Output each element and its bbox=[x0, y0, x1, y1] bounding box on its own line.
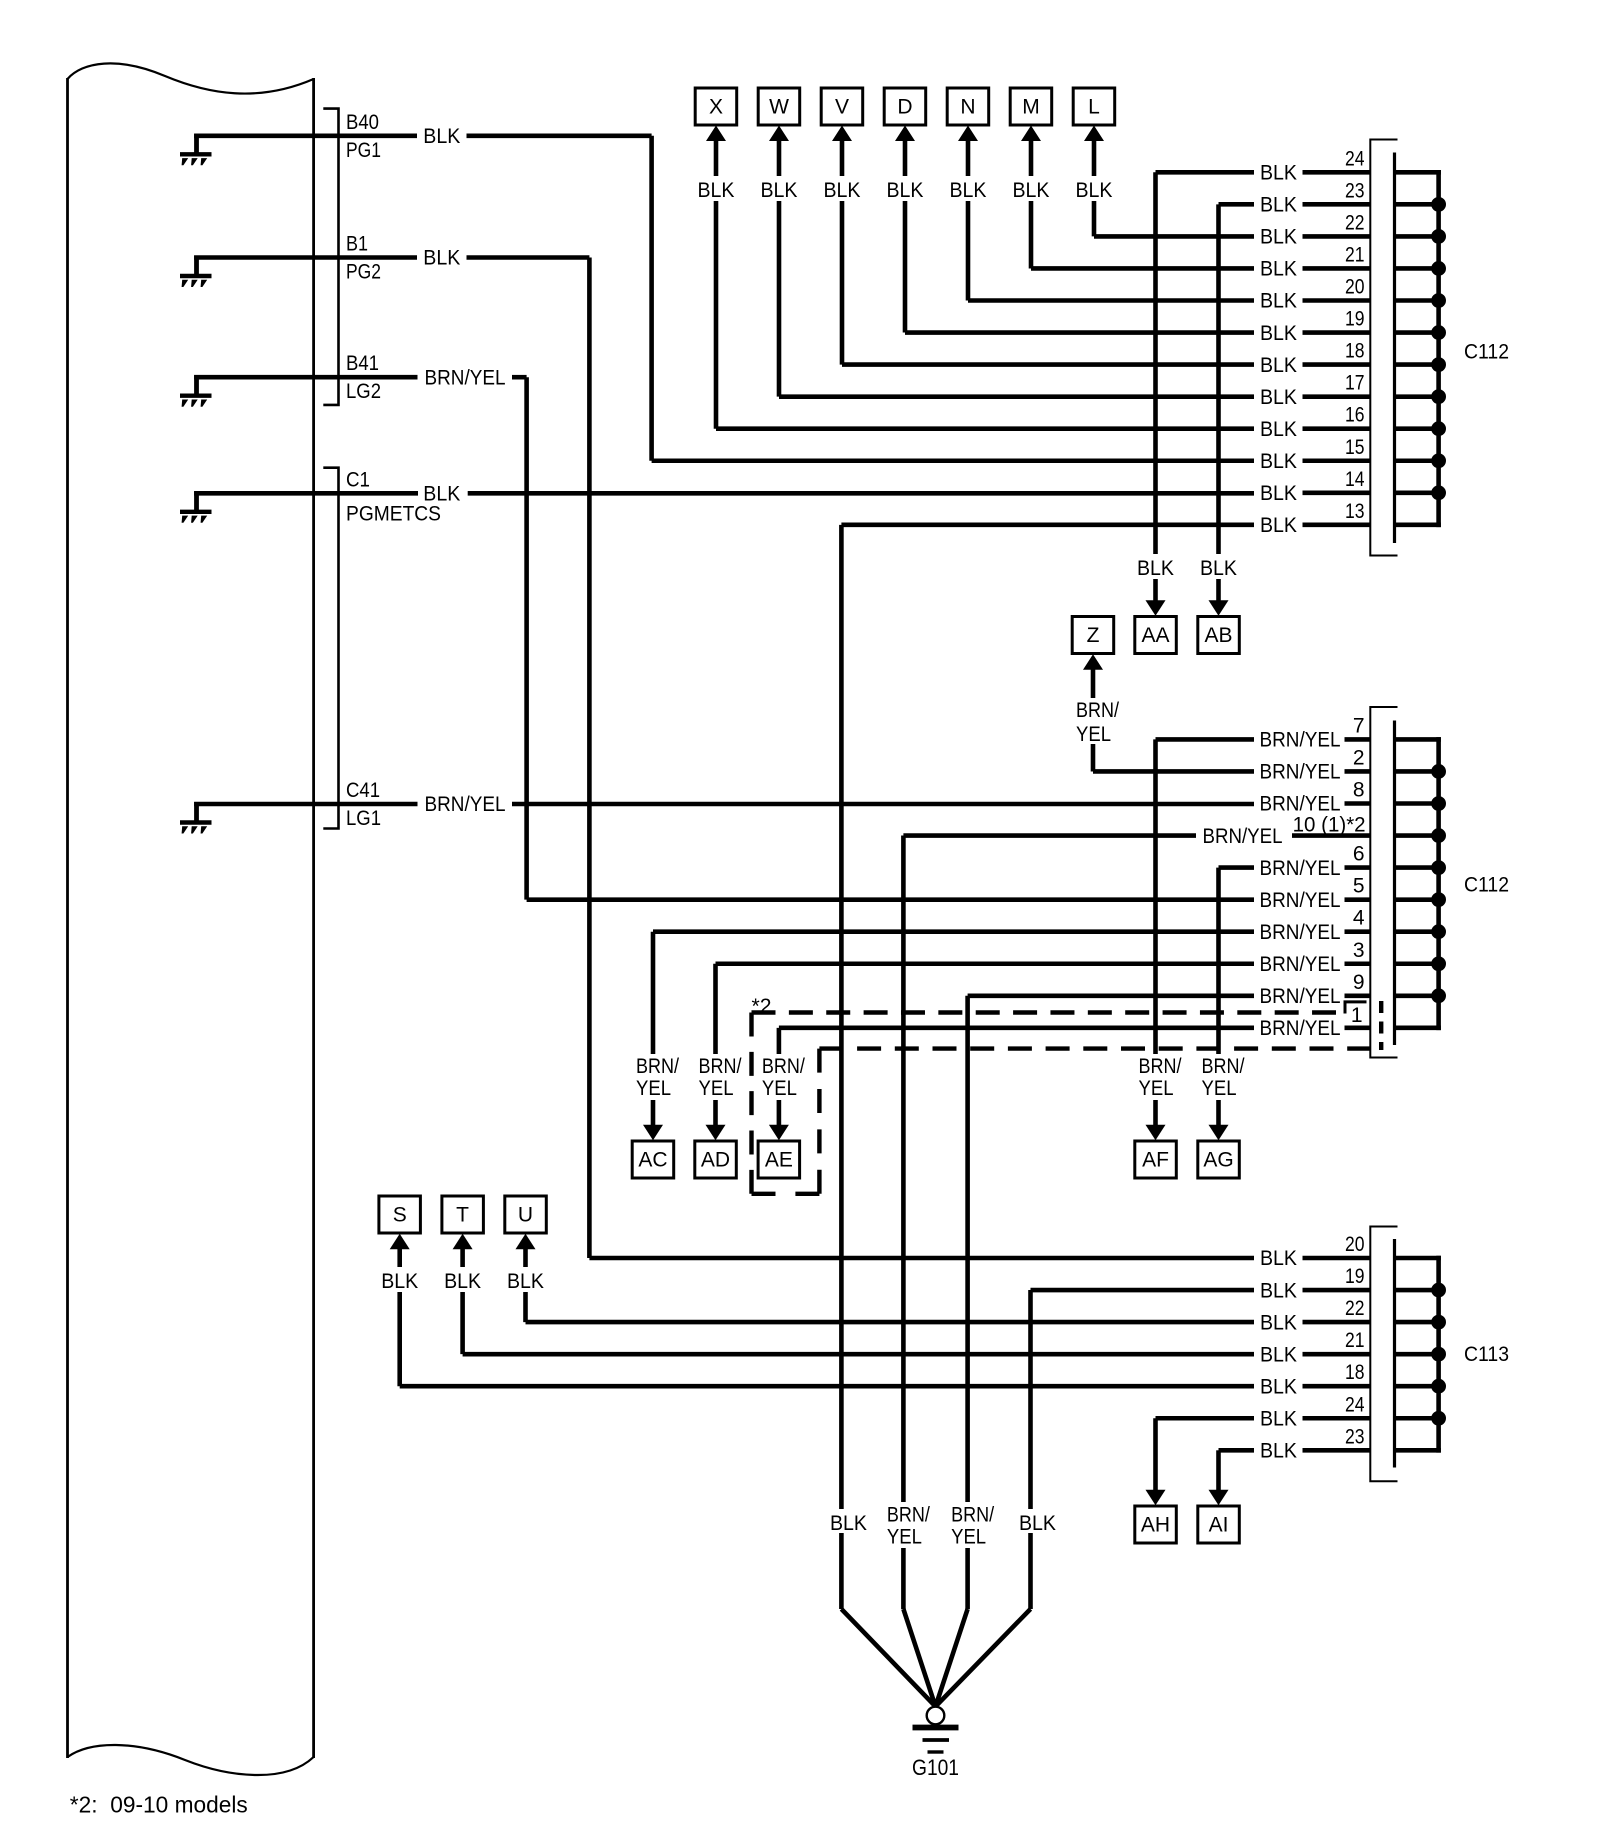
svg-text:14: 14 bbox=[1345, 468, 1365, 491]
destination box W bbox=[758, 88, 800, 125]
svg-text:BLK: BLK bbox=[1260, 354, 1297, 377]
svg-text:BRN/YEL: BRN/YEL bbox=[1260, 761, 1341, 784]
BLK label under box D bbox=[881, 176, 929, 202]
C112 pin number 15 bbox=[1345, 436, 1365, 459]
svg-text:13: 13 bbox=[1345, 500, 1365, 523]
svg-text:17: 17 bbox=[1345, 372, 1365, 395]
wire box X BLK to C112 pin 16 bbox=[716, 139, 1441, 429]
C113 pin number 22 bbox=[1345, 1297, 1365, 1320]
svg-text:BLK: BLK bbox=[1076, 179, 1113, 202]
svg-text:2: 2 bbox=[1353, 746, 1365, 769]
svg-text:Z: Z bbox=[1087, 624, 1100, 647]
arrow into box AE bbox=[769, 1125, 789, 1141]
svg-text:24: 24 bbox=[1345, 147, 1365, 170]
svg-text:X: X bbox=[709, 96, 723, 119]
arrow into box W bbox=[769, 126, 789, 142]
svg-text:AG: AG bbox=[1203, 1149, 1233, 1172]
dashed *2 option box around AE (bottom) bbox=[752, 1192, 820, 1196]
wire C112 pin 1 BRN/YEL to box AE bbox=[779, 1028, 1441, 1127]
svg-text:G101: G101 bbox=[912, 1755, 959, 1780]
BLK label under box M bbox=[1007, 176, 1055, 202]
svg-text:AE: AE bbox=[765, 1149, 793, 1172]
svg-text:BLK: BLK bbox=[1260, 226, 1297, 249]
arrow into box T bbox=[453, 1234, 473, 1250]
BLK value label at C112 pin 22 bbox=[1257, 225, 1301, 249]
svg-text:BLK: BLK bbox=[1260, 322, 1297, 345]
connector C112 (upper) label bbox=[1464, 341, 1509, 364]
svg-text:B1: B1 bbox=[346, 233, 368, 256]
C113 pin number 19 bbox=[1345, 1265, 1365, 1288]
BLK label under box W bbox=[755, 176, 803, 202]
BLK value label at C113 pin 23 bbox=[1257, 1439, 1301, 1463]
svg-text:YEL: YEL bbox=[636, 1077, 671, 1100]
svg-text:BRN/: BRN/ bbox=[699, 1055, 742, 1078]
dashed *2 option box around AE (left side) bbox=[749, 1013, 753, 1194]
svg-text:AH: AH bbox=[1141, 1514, 1170, 1537]
svg-text:AD: AD bbox=[701, 1149, 730, 1172]
svg-text:BRN/: BRN/ bbox=[1076, 699, 1119, 722]
arrow into box X bbox=[706, 126, 726, 142]
svg-text:T: T bbox=[456, 1204, 469, 1227]
C113 pin number 20 bbox=[1345, 1233, 1365, 1256]
arrow into box AG bbox=[1209, 1125, 1229, 1141]
C113 pin number 21 bbox=[1345, 1329, 1365, 1352]
BLK value label at C112 pin 16 bbox=[1257, 417, 1301, 441]
C112 pin number 17 bbox=[1345, 372, 1365, 395]
C112 pin number 21 bbox=[1345, 243, 1365, 266]
wire box N BLK to C112 pin 20 bbox=[968, 139, 1441, 300]
svg-text:AF: AF bbox=[1142, 1149, 1169, 1172]
svg-text:W: W bbox=[769, 96, 789, 119]
destination box AA bbox=[1135, 617, 1177, 654]
svg-text:BRN/: BRN/ bbox=[887, 1504, 930, 1527]
BLK value label at C113 pin 21 bbox=[1257, 1343, 1301, 1367]
BLK value label at C112 pin 15 bbox=[1257, 449, 1301, 473]
C112 pin number 3 bbox=[1353, 939, 1365, 962]
C113 pin number 24 bbox=[1345, 1393, 1365, 1416]
arrow into box AA bbox=[1146, 600, 1166, 616]
arrow into box Z bbox=[1083, 654, 1103, 670]
wire C112 pin 7 BRN/YEL to box AF bbox=[1156, 739, 1441, 1126]
svg-text:BLK: BLK bbox=[1260, 162, 1297, 185]
svg-text:10 (1)*2: 10 (1)*2 bbox=[1293, 814, 1366, 837]
BLK value label on B40 wire bbox=[420, 124, 464, 148]
destination box AD bbox=[695, 1141, 737, 1178]
svg-text:C112: C112 bbox=[1464, 341, 1509, 364]
destination box M bbox=[1010, 88, 1051, 125]
BLK value label on B1 wire bbox=[420, 246, 464, 270]
connector C112 (upper) body bbox=[1370, 140, 1397, 556]
wire box D BLK to C112 pin 19 bbox=[905, 139, 1441, 332]
C112 pin number 10 (1)*2 bbox=[1293, 814, 1366, 837]
C112 pin number 16 bbox=[1345, 404, 1365, 427]
svg-text:20: 20 bbox=[1345, 1233, 1365, 1256]
BRN/YEL value label at C112 pin 1 bbox=[1256, 1016, 1345, 1040]
svg-text:19: 19 bbox=[1345, 1265, 1365, 1288]
svg-text:BLK: BLK bbox=[1260, 418, 1297, 441]
svg-text:BLK: BLK bbox=[1260, 450, 1297, 473]
svg-text:19: 19 bbox=[1345, 308, 1365, 331]
C112 pin number 19 bbox=[1345, 308, 1365, 331]
arrow into box AB bbox=[1209, 600, 1229, 616]
wire C113 pin 24 BLK to box AH bbox=[1156, 1418, 1441, 1492]
BRN/YEL value label at C112 pin 10 bbox=[1198, 824, 1291, 848]
destination box T bbox=[442, 1196, 484, 1233]
wire C112 pin 2 BRN/YEL to box Z bbox=[1093, 668, 1441, 772]
svg-text:BRN/YEL: BRN/YEL bbox=[1260, 729, 1341, 752]
dashed *2 option boundary (upper horizontal) bbox=[752, 1010, 1337, 1014]
svg-text:21: 21 bbox=[1345, 243, 1365, 266]
svg-text:21: 21 bbox=[1345, 1329, 1365, 1352]
svg-text:YEL: YEL bbox=[887, 1526, 922, 1549]
svg-text:BRN/YEL: BRN/YEL bbox=[1260, 857, 1341, 880]
svg-text:BLK: BLK bbox=[1260, 1311, 1297, 1334]
svg-text:BLK: BLK bbox=[1260, 482, 1297, 505]
wire B1/PG2 BLK to C113 pin 20 bbox=[194, 258, 1441, 1259]
svg-text:*2: *2 bbox=[752, 995, 772, 1018]
C113 pin number 18 bbox=[1345, 1361, 1365, 1384]
arrow into box L bbox=[1084, 126, 1104, 142]
svg-text:BLK: BLK bbox=[1260, 1279, 1297, 1302]
BLK label under box V bbox=[818, 176, 866, 202]
svg-text:BLK: BLK bbox=[1260, 1247, 1297, 1270]
BLK value label at C113 pin 19 bbox=[1257, 1279, 1301, 1303]
svg-text:BLK: BLK bbox=[423, 125, 460, 148]
BLK value label at C113 pin 24 bbox=[1257, 1407, 1301, 1431]
wire C112 pin 3 BRN/YEL to box AD bbox=[716, 964, 1441, 1127]
svg-text:1: 1 bbox=[1351, 1004, 1363, 1027]
BRN/YEL value label at C112 pin 5 bbox=[1256, 888, 1345, 912]
svg-text:BLK: BLK bbox=[1260, 1407, 1297, 1430]
C112 pin number 2 bbox=[1353, 746, 1365, 769]
svg-text:BLK: BLK bbox=[1200, 557, 1237, 580]
dashed boundary segment at C112 pin 1 bbox=[1379, 1001, 1383, 1050]
ground G101 name label bbox=[912, 1755, 959, 1780]
svg-text:BRN/YEL: BRN/YEL bbox=[1260, 953, 1341, 976]
svg-text:5: 5 bbox=[1353, 875, 1365, 898]
BRN/YEL value label at C112 pin 6 bbox=[1256, 856, 1345, 880]
ground symbol at B41 bbox=[180, 375, 212, 407]
svg-text:18: 18 bbox=[1345, 340, 1365, 363]
arrow into box U bbox=[516, 1234, 536, 1250]
svg-text:BRN/YEL: BRN/YEL bbox=[1260, 793, 1341, 816]
C112 pin number 14 bbox=[1345, 468, 1365, 491]
BLK value label on C1 wire bbox=[420, 482, 464, 506]
BRN/YEL value label on B41 wire bbox=[421, 366, 510, 390]
svg-text:C1: C1 bbox=[346, 468, 370, 491]
svg-text:16: 16 bbox=[1345, 404, 1365, 427]
arrow into box S bbox=[390, 1234, 410, 1250]
wire C41/LG1 BRN/YEL to C112 pin 8 bbox=[194, 801, 1441, 806]
arrow into box V bbox=[832, 126, 852, 142]
destination box AI bbox=[1198, 1506, 1240, 1543]
BLK value label at C112 pin 17 bbox=[1257, 385, 1301, 409]
svg-text:BLK: BLK bbox=[1260, 1440, 1297, 1463]
svg-text:BLK: BLK bbox=[444, 1270, 481, 1293]
svg-text:LG2: LG2 bbox=[346, 380, 381, 403]
BRN/YEL label on G101 drop 2 bbox=[885, 1502, 937, 1549]
C112 pin number 1 (alt, dashed area) bbox=[1351, 1004, 1363, 1027]
BLK label under box X bbox=[692, 176, 740, 202]
BRN/YEL value label at C112 pin 3 bbox=[1256, 952, 1345, 976]
svg-text:20: 20 bbox=[1345, 276, 1365, 299]
svg-text:YEL: YEL bbox=[1139, 1077, 1174, 1100]
destination box AE bbox=[758, 1141, 800, 1178]
BLK value label at C112 pin 13 bbox=[1257, 513, 1301, 537]
ground symbol at C41 bbox=[180, 802, 212, 834]
svg-text:6: 6 bbox=[1353, 843, 1365, 866]
svg-text:N: N bbox=[960, 96, 975, 119]
BLK label under box L bbox=[1070, 176, 1118, 202]
BRN/YEL label above box AF bbox=[1137, 1054, 1189, 1100]
BRN/YEL value label at C112 pin 7 bbox=[1256, 728, 1345, 752]
svg-text:BLK: BLK bbox=[1019, 1512, 1056, 1535]
svg-text:23: 23 bbox=[1345, 1425, 1365, 1448]
BLK value label at C112 pin 19 bbox=[1257, 321, 1301, 345]
C112 pin number 13 bbox=[1345, 500, 1365, 523]
svg-text:B41: B41 bbox=[346, 352, 379, 375]
BLK value label at C112 pin 21 bbox=[1257, 257, 1301, 281]
wire C113 pin 23 BLK to box AI bbox=[1219, 1450, 1441, 1492]
pin C1 name label bbox=[346, 468, 441, 525]
BRN/YEL value label at C112 pin 8 bbox=[1256, 792, 1345, 816]
BLK value label at C113 pin 20 bbox=[1257, 1247, 1301, 1271]
svg-text:7: 7 bbox=[1353, 714, 1365, 737]
C112 pin number 8 bbox=[1353, 779, 1365, 802]
svg-text:BLK: BLK bbox=[423, 483, 460, 506]
arrow into box D bbox=[895, 126, 915, 142]
BRN/YEL label on G101 drop 3 bbox=[950, 1502, 1002, 1549]
wire C112 pin 13 BLK to ground G101 bbox=[841, 525, 1441, 1609]
svg-text:BLK: BLK bbox=[1260, 290, 1297, 313]
svg-text:C41: C41 bbox=[346, 779, 380, 802]
ECM/PCM component body (torn edges) bbox=[68, 63, 314, 1775]
BRN/YEL label above box AD bbox=[697, 1054, 749, 1100]
bracket mark at alt pin 1 bbox=[1345, 1002, 1367, 1014]
arrow into box AH bbox=[1146, 1490, 1166, 1506]
BRN/YEL value label on C41 wire bbox=[421, 793, 510, 817]
C113 pin number 23 bbox=[1345, 1425, 1365, 1448]
C112 pin number 22 bbox=[1345, 211, 1365, 234]
dashed *2 option boundary (lower horizontal) bbox=[819, 1046, 1371, 1050]
wire C112 pin 10 BRN/YEL to ground G101 bbox=[903, 836, 1441, 1609]
upper C112 ground bus collector wire bbox=[1431, 170, 1446, 527]
svg-text:BLK: BLK bbox=[1260, 194, 1297, 217]
svg-text:AB: AB bbox=[1204, 624, 1232, 647]
C112 pin number 6 bbox=[1353, 843, 1365, 866]
svg-text:BRN/YEL: BRN/YEL bbox=[1260, 921, 1341, 944]
wire box W BLK to C112 pin 17 bbox=[779, 139, 1441, 396]
svg-text:BRN/: BRN/ bbox=[762, 1055, 805, 1078]
arrow into box AI bbox=[1209, 1490, 1229, 1506]
svg-text:4: 4 bbox=[1353, 907, 1365, 930]
svg-text:BLK: BLK bbox=[761, 179, 798, 202]
svg-text:BLK: BLK bbox=[824, 179, 861, 202]
svg-text:BLK: BLK bbox=[1137, 557, 1174, 580]
connector C113 body bbox=[1370, 1227, 1397, 1482]
svg-text:D: D bbox=[897, 96, 912, 119]
svg-text:C112: C112 bbox=[1464, 874, 1509, 897]
svg-text:BRN/YEL: BRN/YEL bbox=[1203, 825, 1283, 848]
BRN/YEL value label at C112 pin 4 bbox=[1256, 920, 1345, 944]
svg-text:BRN/: BRN/ bbox=[951, 1504, 994, 1527]
svg-text:BLK: BLK bbox=[381, 1270, 418, 1293]
wire box M BLK to C112 pin 21 bbox=[1031, 139, 1441, 268]
arrow into box N bbox=[958, 126, 978, 142]
BLK value label at C112 pin 18 bbox=[1257, 353, 1301, 377]
svg-text:C113: C113 bbox=[1464, 1343, 1509, 1366]
svg-text:18: 18 bbox=[1345, 1361, 1365, 1384]
BLK value label on G101 drop 4 bbox=[1016, 1509, 1064, 1535]
BLK label under box S bbox=[376, 1267, 424, 1293]
svg-text:BLK: BLK bbox=[950, 179, 987, 202]
arrow into box M bbox=[1021, 126, 1041, 142]
svg-text:PG1: PG1 bbox=[346, 139, 381, 162]
svg-text:AC: AC bbox=[638, 1149, 667, 1172]
BLK value label on G101 drop 1 bbox=[826, 1509, 874, 1535]
svg-text:AI: AI bbox=[1209, 1514, 1229, 1537]
svg-text:9: 9 bbox=[1353, 971, 1365, 994]
ground symbol at B1 bbox=[180, 256, 212, 288]
wire C113 pin 19 BLK to ground G101 bbox=[1031, 1290, 1441, 1609]
arrow into box AC bbox=[643, 1125, 663, 1141]
wire B40/PG1 BLK to C112 pin 15 bbox=[194, 136, 1441, 461]
ground G101 symbol bbox=[913, 1707, 959, 1752]
destination box L bbox=[1073, 88, 1115, 125]
svg-text:BLK: BLK bbox=[1260, 514, 1297, 537]
BRN/YEL label above box AE bbox=[760, 1054, 812, 1100]
BRN/YEL label under box Z bbox=[1074, 698, 1126, 746]
lower C112 ground bus collector wire bbox=[1431, 737, 1446, 1030]
svg-text:YEL: YEL bbox=[951, 1526, 986, 1549]
svg-text:BRN/YEL: BRN/YEL bbox=[1260, 985, 1341, 1008]
destination box S bbox=[379, 1196, 421, 1233]
svg-text:B40: B40 bbox=[346, 111, 379, 134]
svg-text:S: S bbox=[393, 1204, 407, 1227]
BLK label above box AB bbox=[1195, 554, 1243, 580]
C112 pin number 20 bbox=[1345, 276, 1365, 299]
BLK value label at C112 pin 20 bbox=[1257, 289, 1301, 313]
BLK label under box T bbox=[439, 1267, 487, 1293]
C112 pin number 23 bbox=[1345, 179, 1365, 202]
BRN/YEL value label at C112 pin 9 bbox=[1256, 984, 1345, 1008]
destination box X bbox=[695, 88, 737, 125]
wire to G101 junction (drop 2) bbox=[903, 1609, 935, 1707]
svg-text:BRN/: BRN/ bbox=[636, 1055, 679, 1078]
pin-group bracket (B40/B1/B41) bbox=[323, 109, 338, 405]
svg-text:V: V bbox=[835, 96, 849, 119]
destination box AG bbox=[1198, 1141, 1240, 1178]
svg-text:PG2: PG2 bbox=[346, 261, 381, 284]
C113 ground bus collector wire bbox=[1431, 1256, 1446, 1453]
svg-text:BLK: BLK bbox=[698, 179, 735, 202]
wire C112 pin 6 BRN/YEL to box AG bbox=[1219, 868, 1441, 1127]
BRN/YEL label above box AC bbox=[634, 1054, 686, 1100]
svg-text:BRN/YEL: BRN/YEL bbox=[425, 793, 506, 816]
BLK label above box AA bbox=[1132, 554, 1180, 580]
C112 pin number 9 bbox=[1353, 971, 1365, 994]
svg-text:8: 8 bbox=[1353, 779, 1365, 802]
wire box V BLK to C112 pin 18 bbox=[842, 139, 1441, 364]
svg-text:BLK: BLK bbox=[887, 179, 924, 202]
svg-text:24: 24 bbox=[1345, 1393, 1365, 1416]
svg-text:BLK: BLK bbox=[1260, 1343, 1297, 1366]
BLK label under box N bbox=[944, 176, 992, 202]
wire to G101 junction (drop 4) bbox=[936, 1609, 1031, 1707]
wire C112 pin 23 BLK to box AB bbox=[1219, 204, 1441, 602]
BLK value label at C112 pin 23 bbox=[1257, 193, 1301, 217]
svg-text:23: 23 bbox=[1345, 179, 1365, 202]
footnote marker *2 at dashed box bbox=[752, 995, 772, 1018]
svg-text:YEL: YEL bbox=[1076, 723, 1111, 746]
svg-text:22: 22 bbox=[1345, 211, 1365, 234]
svg-text:*2: 09-10 models: *2: 09-10 models bbox=[70, 1792, 248, 1818]
svg-text:AA: AA bbox=[1141, 624, 1169, 647]
svg-text:22: 22 bbox=[1345, 1297, 1365, 1320]
C112 pin number 4 bbox=[1353, 907, 1365, 930]
destination box V bbox=[821, 88, 863, 125]
C112 pin number 18 bbox=[1345, 340, 1365, 363]
svg-text:BLK: BLK bbox=[830, 1512, 867, 1535]
ground symbol at B40 bbox=[180, 134, 212, 166]
svg-text:BLK: BLK bbox=[1260, 386, 1297, 409]
arrow into box AF bbox=[1146, 1125, 1166, 1141]
footnote *2: 09-10 models bbox=[70, 1792, 248, 1818]
BRN/YEL label above box AG bbox=[1200, 1054, 1252, 1100]
svg-text:U: U bbox=[518, 1204, 533, 1227]
svg-text:BLK: BLK bbox=[507, 1270, 544, 1293]
svg-text:LG1: LG1 bbox=[346, 807, 381, 830]
pin B1 name label bbox=[346, 233, 381, 284]
C112 pin number 7 bbox=[1353, 714, 1365, 737]
wire to G101 junction (drop 1) bbox=[841, 1609, 935, 1707]
svg-text:BRN/YEL: BRN/YEL bbox=[1260, 1017, 1341, 1040]
pin-group bracket (C1/C41) bbox=[323, 468, 338, 829]
wire B41/LG2 BRN/YEL to C112 pin 5 bbox=[194, 377, 1441, 899]
BLK value label at C112 pin 14 bbox=[1257, 481, 1301, 505]
ground symbol at C1 bbox=[180, 491, 212, 523]
wire C112 pin 4 BRN/YEL to box AC bbox=[653, 932, 1441, 1127]
svg-text:BRN/: BRN/ bbox=[1202, 1055, 1245, 1078]
BLK label under box U bbox=[502, 1267, 550, 1293]
destination box D bbox=[884, 88, 926, 125]
destination box AF bbox=[1135, 1141, 1177, 1178]
C112 pin number 5 bbox=[1353, 875, 1365, 898]
connector C112 (lower) body bbox=[1370, 707, 1397, 1058]
destination box Z bbox=[1072, 617, 1114, 654]
svg-text:BRN/: BRN/ bbox=[1139, 1055, 1182, 1078]
pin B41 name label bbox=[346, 352, 381, 403]
BRN/YEL value label at C112 pin 2 bbox=[1256, 760, 1345, 784]
svg-text:YEL: YEL bbox=[699, 1077, 734, 1100]
svg-text:BRN/YEL: BRN/YEL bbox=[425, 366, 506, 389]
svg-text:BLK: BLK bbox=[1260, 1375, 1297, 1398]
pin B40 name label bbox=[346, 111, 381, 162]
destination box N bbox=[947, 88, 989, 125]
wire C112 pin 9 BRN/YEL to ground G101 bbox=[968, 996, 1441, 1609]
svg-text:YEL: YEL bbox=[762, 1077, 797, 1100]
svg-text:PGMETCS: PGMETCS bbox=[346, 502, 441, 525]
pin C41 name label bbox=[346, 779, 381, 830]
BLK value label at C112 pin 24 bbox=[1257, 161, 1301, 185]
svg-text:BRN/YEL: BRN/YEL bbox=[1260, 889, 1341, 912]
svg-text:15: 15 bbox=[1345, 436, 1365, 459]
destination box AB bbox=[1198, 617, 1240, 654]
destination box U bbox=[505, 1196, 547, 1233]
connector C112 (lower) label bbox=[1464, 874, 1509, 897]
svg-text:YEL: YEL bbox=[1202, 1077, 1237, 1100]
wire box U BLK to C113 pin 22 bbox=[526, 1247, 1441, 1322]
